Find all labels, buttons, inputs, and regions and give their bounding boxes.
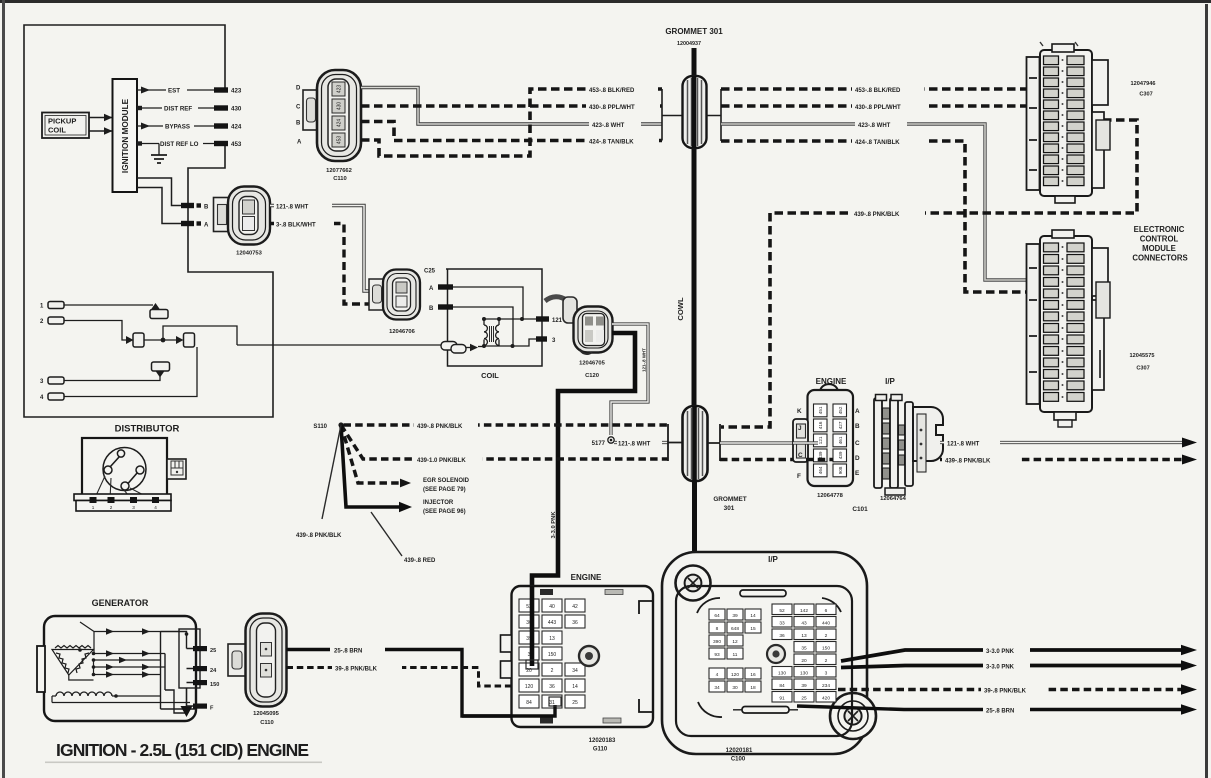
C100 right grid [772, 604, 836, 702]
svg-text:12045575: 12045575 [1130, 353, 1155, 359]
svg-text:430: 430 [231, 106, 242, 113]
cap right tab [167, 459, 186, 479]
wire junction to coil feed [163, 326, 237, 345]
svg-text:6: 6 [825, 608, 828, 614]
svg-text:14: 14 [572, 684, 578, 690]
svg-text:BYPASS: BYPASS [165, 124, 190, 131]
svg-text:12064778: 12064778 [817, 493, 844, 499]
cap wires to base [94, 476, 155, 501]
contact 1 [151, 303, 160, 310]
wire module to pin B of 12040753 [137, 178, 181, 206]
contact 3 [176, 336, 184, 344]
COWL line lower [692, 481, 697, 558]
svg-text:130: 130 [800, 671, 808, 677]
wire to coil (through box edge) [237, 344, 441, 346]
diode bridge wires [69, 622, 165, 680]
connector 12046706 [369, 270, 420, 336]
svg-text:8: 8 [716, 626, 719, 632]
svg-text:INJECTOR: INJECTOR [423, 500, 454, 506]
wire EST 423 [137, 89, 215, 91]
svg-text:39-.8 PNK/BLK: 39-.8 PNK/BLK [984, 689, 1027, 695]
svg-text:12040753: 12040753 [236, 251, 263, 257]
wire 439-8 PNK/BLK into C101 pin D [806, 458, 833, 462]
wire DIST REF 430 [137, 107, 215, 109]
wire 3-8 BLK/WHT from 12040753 [270, 219, 384, 304]
base terminals [90, 497, 160, 503]
label 424-8 TAN/BLK left [586, 136, 659, 145]
scan border right [1205, 4, 1208, 778]
wire 3-3.0 PNK inside G110 [530, 586, 535, 666]
fusible link on coil feed [441, 342, 484, 354]
svg-text:150: 150 [210, 682, 219, 688]
svg-text:I/P: I/P [885, 377, 895, 386]
coil primary winding [484, 325, 499, 345]
svg-text:GROMMET 301: GROMMET 301 [665, 27, 723, 36]
splice 5177 [608, 437, 614, 443]
svg-text:11: 11 [733, 652, 738, 658]
svg-text:424: 424 [337, 119, 343, 128]
svg-text:1: 1 [92, 505, 95, 510]
svg-text:ELECTRONIC: ELECTRONIC [1134, 225, 1185, 234]
svg-text:39: 39 [732, 613, 738, 619]
wire 453-8 BLK/RED right [721, 87, 1031, 91]
svg-text:C110: C110 [260, 720, 274, 726]
svg-text:130: 130 [778, 671, 786, 677]
svg-text:IGNITION MODULE: IGNITION MODULE [121, 98, 130, 173]
svg-text:424: 424 [231, 124, 242, 131]
svg-text:121-.8 WHT: 121-.8 WHT [618, 441, 651, 447]
ECM CONNECTORS label [1132, 225, 1187, 263]
svg-text:ENGINE: ENGINE [571, 573, 602, 582]
svg-text:301: 301 [724, 505, 735, 512]
svg-text:451: 451 [818, 406, 823, 414]
svg-text:121-.8 WHT: 121-.8 WHT [276, 204, 309, 210]
label 453-8 BLK/RED left [586, 85, 658, 94]
wire 39-8 PNK/BLK generator [287, 668, 513, 687]
svg-text:C: C [798, 452, 803, 459]
svg-text:DIST REF LO: DIST REF LO [160, 141, 199, 148]
svg-text:12004937: 12004937 [677, 41, 701, 47]
svg-text:5177: 5177 [592, 441, 606, 447]
wire D to 423-8 WHT [361, 88, 662, 125]
coil top node wire [484, 318, 536, 320]
svg-text:40: 40 [549, 604, 555, 610]
svg-text:2: 2 [825, 658, 828, 664]
svg-text:A: A [429, 286, 434, 292]
svg-text:C120: C120 [585, 373, 599, 379]
connector 12045095 body [246, 614, 287, 727]
wire 3-3.0 PNK upper to right arrow [841, 650, 1183, 661]
svg-text:4: 4 [716, 672, 719, 678]
svg-text:B: B [429, 306, 434, 312]
svg-text:430-.8 PPL/WHT: 430-.8 PPL/WHT [589, 105, 635, 111]
rotor arm lines [110, 457, 120, 468]
svg-text:K: K [797, 408, 802, 415]
wire A to coil [453, 287, 523, 319]
svg-text:GENERATOR: GENERATOR [92, 598, 149, 608]
engine bulkhead block G110 [501, 586, 654, 727]
grommet 301 upper [683, 76, 707, 148]
coil assembly box C25 loop [446, 269, 542, 366]
svg-text:142: 142 [800, 608, 808, 614]
svg-text:464: 464 [818, 466, 823, 474]
wire BYPASS 424 [137, 125, 215, 127]
svg-text:12045095: 12045095 [253, 711, 280, 717]
wire EST loop / distributor enclosure [24, 25, 273, 417]
svg-text:A: A [204, 222, 209, 228]
svg-text:S110: S110 [313, 424, 327, 430]
svg-text:84: 84 [526, 700, 532, 706]
svg-text:42: 42 [572, 604, 578, 610]
svg-text:30: 30 [732, 685, 738, 691]
svg-text:2: 2 [825, 633, 828, 639]
svg-text:COIL: COIL [481, 371, 499, 380]
wire term1 to contact [64, 304, 153, 306]
svg-text:120: 120 [525, 684, 534, 690]
svg-text:D: D [296, 86, 301, 92]
generator left tab [37, 646, 45, 692]
wire module to pin A of 12040753 [137, 188, 181, 224]
wire 121-8 WHT from 12040753 [270, 201, 384, 291]
svg-text:20: 20 [801, 658, 807, 664]
svg-text:D: D [855, 455, 860, 462]
svg-text:12020181: 12020181 [726, 748, 753, 754]
bracket right of grommet 301 [706, 89, 721, 141]
C100 left grid [709, 609, 761, 692]
svg-text:439-.8 PNK/BLK: 439-.8 PNK/BLK [945, 459, 991, 465]
wire B to 424-8 TAN/BLK [361, 122, 662, 141]
svg-text:39: 39 [801, 683, 807, 689]
wire 121-8 WHT into C101 pin C [793, 441, 818, 444]
svg-text:25-.8 BRN: 25-.8 BRN [334, 649, 362, 655]
field coil [56, 692, 112, 696]
svg-text:12: 12 [732, 639, 738, 645]
connector 12077662 C110 body [317, 70, 361, 161]
wire 423-8 WHT right [721, 120, 1031, 280]
generator pin 24 [193, 666, 207, 671]
svg-text:C: C [855, 440, 860, 447]
svg-text:IGNITION - 2.5L (151 CID) ENGI: IGNITION - 2.5L (151 CID) ENGINE [56, 740, 309, 760]
svg-text:12046705: 12046705 [579, 361, 606, 367]
COWL line upper [692, 48, 697, 409]
svg-text:150: 150 [822, 646, 830, 652]
svg-text:439-1.0 PNK/BLK: 439-1.0 PNK/BLK [417, 458, 466, 464]
diode arrows [106, 628, 150, 677]
svg-text:427: 427 [838, 421, 843, 429]
svg-text:DIST REF: DIST REF [164, 106, 192, 113]
C100 inner shell [676, 586, 852, 736]
svg-text:14: 14 [750, 613, 756, 619]
svg-text:EST: EST [168, 88, 180, 95]
svg-text:84: 84 [779, 683, 785, 689]
ECM connector 12045575 C307 [1027, 230, 1111, 427]
svg-text:234: 234 [822, 683, 830, 689]
wire 25-8 BRN to right arrow [797, 706, 1183, 710]
svg-text:C110: C110 [333, 176, 347, 182]
svg-text:3-3.0 PNK: 3-3.0 PNK [986, 665, 1015, 671]
svg-text:C307: C307 [1136, 366, 1149, 372]
svg-text:3: 3 [825, 671, 828, 677]
wire 39-8 PNK/BLK to right arrow [838, 688, 1183, 692]
C100 hole [767, 645, 785, 663]
svg-text:24: 24 [210, 668, 217, 674]
bracket right of grommet lower [708, 424, 720, 461]
svg-text:36: 36 [572, 620, 578, 626]
connector 12045095 C110 tab [228, 644, 246, 676]
wire term3 to contact [64, 375, 160, 381]
svg-text:416: 416 [818, 421, 823, 429]
svg-text:(SEE PAGE 96): (SEE PAGE 96) [423, 509, 466, 515]
wire 430-8 PPL/WHT right [721, 104, 1031, 108]
right collector frame [161, 629, 201, 713]
svg-text:423-.8 WHT: 423-.8 WHT [592, 123, 625, 129]
svg-text:91: 91 [779, 696, 785, 702]
ECM connector 12047946 C307 [1027, 42, 1111, 203]
svg-text:33: 33 [779, 621, 785, 627]
wire 439-1.0 PNK/BLK from S110 [341, 425, 668, 459]
svg-text:B: B [296, 121, 301, 127]
svg-text:12077662: 12077662 [326, 168, 352, 174]
coil bottom node wire [483, 339, 536, 346]
ground arrow in generator [186, 688, 188, 706]
svg-text:453: 453 [337, 136, 343, 145]
wire 3-3.0 PNK from C120 to G110 [532, 333, 635, 668]
svg-text:439: 439 [838, 451, 843, 459]
svg-text:F: F [210, 706, 214, 712]
svg-text:420: 420 [822, 696, 830, 702]
svg-text:COIL: COIL [48, 126, 66, 135]
svg-text:43: 43 [801, 621, 807, 627]
svg-text:39-.8 PNK/BLK: 39-.8 PNK/BLK [335, 667, 378, 673]
ground at module [158, 144, 160, 156]
C100 corner arcs [697, 598, 841, 717]
svg-text:390: 390 [713, 639, 721, 645]
svg-text:423: 423 [337, 85, 343, 94]
svg-text:C: C [296, 105, 301, 111]
C100 top slot [740, 590, 786, 597]
svg-text:120: 120 [731, 672, 739, 678]
generator pin 25 [193, 646, 207, 651]
wire pickup coil to module pin 2 [89, 130, 113, 132]
svg-text:423-.8 WHT: 423-.8 WHT [858, 123, 891, 129]
wire 121-8 WHT to right arrow [940, 438, 1197, 448]
wire 25-8 BRN [287, 650, 556, 717]
svg-text:A: A [297, 140, 302, 146]
svg-text:I/P: I/P [768, 555, 778, 564]
C110 pin cells [332, 82, 345, 147]
C100 ear top-left [676, 566, 711, 601]
wire 439-8 PNK/BLK grommet to C101 [720, 458, 833, 462]
svg-text:439-.8 PNK/BLK: 439-.8 PNK/BLK [417, 424, 463, 430]
wire 3-3.0 PNK lower to right arrow [841, 666, 1183, 668]
rotor contact 1 [117, 450, 124, 457]
ignition module U1 [113, 79, 138, 192]
C101 pin letters [797, 408, 860, 480]
svg-text:25: 25 [572, 700, 578, 706]
scan border left [2, 0, 5, 778]
svg-text:2: 2 [551, 668, 554, 674]
generator pin 150 [193, 680, 207, 685]
svg-text:15: 15 [750, 626, 756, 632]
svg-text:424-.8 TAN/BLK: 424-.8 TAN/BLK [589, 139, 634, 145]
wire 439-8 PNK/BLK from S110 [344, 423, 669, 427]
svg-text:2: 2 [110, 505, 113, 510]
svg-text:908: 908 [838, 466, 843, 474]
svg-text:461: 461 [838, 436, 843, 444]
svg-text:25: 25 [801, 696, 807, 702]
svg-text:648: 648 [731, 626, 739, 632]
C100 bottom slot [742, 707, 789, 714]
stator delta winding [52, 646, 94, 676]
svg-text:439-.8 RED: 439-.8 RED [404, 558, 436, 564]
svg-text:B: B [204, 204, 209, 210]
svg-text:36: 36 [549, 684, 555, 690]
C100 ear bottom-right [830, 693, 876, 739]
C110 pin letters [296, 86, 302, 146]
wire 439-8 PNK/BLK to right arrow [940, 455, 1197, 465]
svg-text:430-.8 PPL/WHT: 430-.8 PPL/WHT [855, 105, 901, 111]
svg-text:423: 423 [231, 88, 242, 95]
connector 12064764 body [874, 395, 943, 496]
svg-text:3-3.0 PNK: 3-3.0 PNK [551, 511, 557, 539]
connector 12077662 C110 tab [303, 90, 319, 130]
svg-text:3: 3 [132, 505, 135, 510]
svg-text:F: F [797, 473, 801, 480]
wire 121-8 WHT splice to grommet [614, 438, 668, 447]
svg-text:439-.8 PNK/BLK: 439-.8 PNK/BLK [854, 212, 900, 218]
wire 121-8 WHT grommet to ENGINE C101 [720, 441, 817, 444]
junction dot [161, 338, 166, 343]
svg-text:121-.8 WHT: 121-.8 WHT [947, 441, 980, 447]
wire C to 430-8 PPL/WHT [361, 104, 662, 108]
svg-text:G110: G110 [593, 747, 608, 753]
svg-text:121: 121 [818, 436, 823, 444]
pin B [181, 203, 194, 208]
distributor cap box [82, 438, 167, 495]
wire contact2 to contact3 [144, 339, 176, 341]
contact 2 [126, 336, 134, 344]
svg-text:C100: C100 [731, 757, 746, 763]
wire to EGR solenoid [341, 425, 400, 483]
label 423-8 WHT left [589, 120, 641, 129]
svg-text:453-.8 BLK/RED: 453-.8 BLK/RED [589, 88, 635, 94]
wire term4 [64, 347, 197, 397]
svg-text:C307: C307 [1139, 92, 1152, 98]
svg-text:440: 440 [822, 621, 830, 627]
rotor contact 2 [104, 466, 112, 474]
svg-text:452: 452 [838, 406, 843, 414]
svg-text:34: 34 [572, 668, 578, 674]
grommet 301 lower [683, 406, 708, 481]
bracket left of grommet 301 lower [668, 424, 683, 461]
svg-text:COWL: COWL [676, 297, 685, 321]
svg-text:453-.8 BLK/RED: 453-.8 BLK/RED [855, 88, 901, 94]
svg-text:35: 35 [801, 646, 807, 652]
svg-text:12020183: 12020183 [589, 738, 616, 744]
connector 12040753 [214, 187, 271, 257]
wire stub 439-8 PNK/BLK lower [322, 425, 341, 519]
svg-text:121: 121 [552, 318, 563, 324]
svg-text:13: 13 [549, 636, 555, 642]
svg-text:453: 453 [231, 141, 242, 148]
svg-text:121-.8 WHT: 121-.8 WHT [642, 348, 647, 372]
svg-text:36: 36 [779, 633, 785, 639]
pin 3 of C120 [536, 336, 547, 341]
svg-text:25: 25 [210, 648, 216, 654]
wire 424-8 TAN/BLK right [721, 141, 1031, 292]
svg-text:CONNECTORS: CONNECTORS [1132, 254, 1187, 263]
caption underline [45, 762, 322, 764]
wire to injector [341, 425, 399, 507]
svg-text:4: 4 [154, 505, 157, 510]
svg-text:16: 16 [750, 672, 756, 678]
wire DIST REF LO 453 [137, 143, 215, 145]
G110 stud circle [579, 646, 599, 666]
wire 121-8 WHT from C120 to splice 5177 [611, 324, 648, 435]
coil core [490, 326, 494, 342]
svg-text:MODULE: MODULE [1142, 244, 1176, 253]
svg-text:J: J [798, 425, 802, 432]
contact 4 [152, 362, 170, 371]
svg-text:424-.8 TAN/BLK: 424-.8 TAN/BLK [855, 140, 900, 146]
svg-text:3-3.0 PNK: 3-3.0 PNK [986, 649, 1015, 655]
pin A [181, 221, 194, 226]
svg-text:430: 430 [337, 102, 343, 111]
wire A to 453-8 BLK/RED [361, 89, 662, 156]
generator body [44, 616, 196, 721]
wire term2 to contact [64, 321, 126, 341]
svg-text:C101: C101 [852, 506, 868, 513]
rotor contact 4 [121, 482, 129, 490]
svg-text:3-.8 BLK/WHT: 3-.8 BLK/WHT [276, 222, 316, 228]
svg-text:CONTROL: CONTROL [1140, 235, 1179, 244]
svg-text:34: 34 [714, 685, 720, 691]
cap base [74, 494, 171, 501]
svg-text:DISTRIBUTOR: DISTRIBUTOR [115, 424, 180, 435]
svg-text:12064764: 12064764 [880, 496, 907, 502]
distributor cap circle [103, 448, 146, 491]
svg-text:B: B [855, 423, 860, 430]
svg-text:64: 64 [714, 613, 720, 619]
callout 439-8 RED [371, 512, 402, 556]
generator pin F [193, 704, 207, 709]
label 430-8 PPL/WHT left [586, 102, 659, 111]
connector 12064778 body [793, 384, 853, 486]
svg-text:13: 13 [801, 633, 807, 639]
svg-text:PICKUP: PICKUP [48, 117, 76, 126]
wire pickup coil to module pin 1 [89, 117, 113, 119]
svg-text:(SEE PAGE 79): (SEE PAGE 79) [423, 487, 466, 493]
svg-text:GROMMET: GROMMET [713, 496, 746, 503]
pin 121 of C120 [536, 316, 549, 321]
scan border top [0, 0, 1211, 3]
connector 12046705 C120 [545, 297, 613, 379]
svg-text:A: A [855, 408, 860, 415]
svg-text:18: 18 [750, 685, 756, 691]
svg-text:443: 443 [548, 620, 557, 626]
bracket left of grommet 301 [662, 89, 683, 141]
wire 439-8 PNK/BLK ECM loop [721, 120, 1137, 427]
wire 25-8 BRN inside G110 [462, 705, 555, 716]
svg-text:93: 93 [714, 652, 720, 658]
svg-text:EGR SOLENOID: EGR SOLENOID [423, 478, 470, 484]
wire B to coil [453, 307, 513, 346]
rotor contact 3 [136, 466, 144, 474]
svg-text:439-.8 PNK/BLK: 439-.8 PNK/BLK [296, 533, 342, 539]
svg-text:25-.8 BRN: 25-.8 BRN [986, 708, 1014, 714]
svg-text:12047946: 12047946 [1131, 81, 1156, 87]
svg-text:150: 150 [548, 652, 557, 658]
